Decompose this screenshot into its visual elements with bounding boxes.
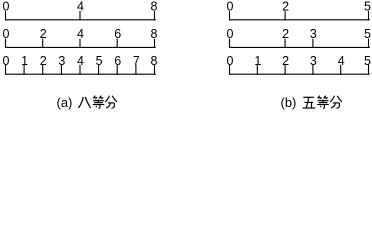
svg-text:5: 5 xyxy=(364,54,371,68)
svg-text:0: 0 xyxy=(227,54,234,68)
svg-text:5: 5 xyxy=(364,0,371,14)
svg-text:5: 5 xyxy=(364,27,371,41)
svg-text:1: 1 xyxy=(21,54,28,68)
svg-text:0: 0 xyxy=(227,27,234,41)
svg-text:1: 1 xyxy=(254,54,261,68)
svg-text:4: 4 xyxy=(77,27,84,41)
svg-text:3: 3 xyxy=(310,27,317,41)
svg-text:6: 6 xyxy=(114,27,121,41)
svg-text:2: 2 xyxy=(282,27,289,41)
svg-text:2: 2 xyxy=(282,54,289,68)
svg-text:8: 8 xyxy=(151,0,158,14)
svg-text:7: 7 xyxy=(133,54,140,68)
svg-text:4: 4 xyxy=(77,54,84,68)
svg-text:5: 5 xyxy=(96,54,103,68)
svg-text:4: 4 xyxy=(77,0,84,14)
svg-text:3: 3 xyxy=(58,54,65,68)
svg-text:2: 2 xyxy=(40,27,47,41)
svg-text:(b): (b) xyxy=(281,95,297,110)
svg-text:4: 4 xyxy=(338,54,345,68)
svg-text:(a): (a) xyxy=(57,95,73,110)
svg-text:8: 8 xyxy=(151,54,158,68)
svg-text:8: 8 xyxy=(151,27,158,41)
svg-text:0: 0 xyxy=(227,0,234,14)
svg-text:2: 2 xyxy=(282,0,289,14)
svg-text:3: 3 xyxy=(310,54,317,68)
svg-text:6: 6 xyxy=(114,54,121,68)
svg-text:0: 0 xyxy=(3,0,10,14)
svg-text:0: 0 xyxy=(3,54,10,68)
svg-text:2: 2 xyxy=(40,54,47,68)
svg-text:0: 0 xyxy=(3,27,10,41)
